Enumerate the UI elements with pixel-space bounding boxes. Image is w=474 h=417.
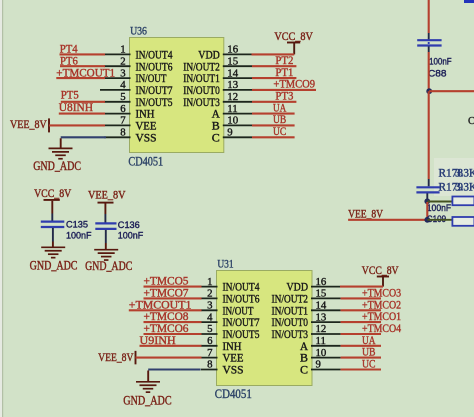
svg-text:15: 15 xyxy=(227,55,238,67)
net label +TMCO5 (U31 pin 1) xyxy=(144,276,189,288)
svg-text:6: 6 xyxy=(120,103,126,115)
U31 pin 2 (IN/OUT6) xyxy=(201,288,260,306)
U36 pin 9 (C) xyxy=(212,127,252,145)
svg-text:10: 10 xyxy=(227,115,238,127)
power port VCC_8V at U31 pin 16 xyxy=(362,264,399,287)
net label +TMCO9 (U36 pin 13) xyxy=(273,79,315,91)
svg-text:U31: U31 xyxy=(217,259,233,271)
wire from top edge to C88 xyxy=(428,0,430,40)
svg-text:IN/OUT1: IN/OUT1 xyxy=(272,305,309,317)
svg-text:11: 11 xyxy=(316,335,326,347)
U31 pin 1 (IN/OUT4) xyxy=(201,276,260,294)
net label +TMCO6 (U31 pin 5) xyxy=(144,323,189,335)
net label PT1 (U36 pin 14) xyxy=(275,67,293,79)
svg-text:100nF: 100nF xyxy=(66,230,92,241)
wire U36 pin 15 to PT2 xyxy=(252,65,296,67)
svg-text:C136: C136 xyxy=(118,219,140,230)
svg-text:C88: C88 xyxy=(428,67,447,78)
wire U31 pin 15 to +TMCO3 xyxy=(341,297,381,299)
ground net label GND_ADC (U36) xyxy=(33,159,81,173)
svg-text:14: 14 xyxy=(227,67,238,79)
svg-text:7: 7 xyxy=(120,115,126,127)
wire +TMCO5 to U31 pin 1 xyxy=(144,286,202,288)
U36 pin 15 (IN/OUT2) xyxy=(183,55,252,73)
wire U36 pin 11 to UA xyxy=(252,113,295,115)
wire U9INH to U31 pin 6 xyxy=(140,345,202,347)
U36 pin 5 (IN/OUT5) xyxy=(104,91,173,109)
svg-text:VEE_8V: VEE_8V xyxy=(348,207,383,220)
blue part fragment top right corner xyxy=(464,0,474,3)
wire between junction nodes xyxy=(426,202,428,220)
U36 pin 12 (IN/OUT3) xyxy=(183,91,252,109)
svg-text:VEE: VEE xyxy=(136,121,157,133)
svg-text:IN/OUT5: IN/OUT5 xyxy=(223,329,260,341)
net label PT5 xyxy=(61,90,79,102)
svg-text:A: A xyxy=(212,109,221,121)
wire +TMCO6 to U31 pin 5 xyxy=(144,333,202,335)
ground net label GND_ADC (U31) xyxy=(123,394,171,408)
net label +TMCOUT1 (U36) xyxy=(56,67,115,79)
U36 reference designator xyxy=(130,26,147,38)
U31 pin 10 (B) xyxy=(300,347,341,365)
C136 designator xyxy=(118,219,140,230)
wire U31 VSS (pin 8) to ground xyxy=(148,370,200,382)
power port VEE_8V above C136 xyxy=(88,189,126,203)
U36 pin 8 (VSS) xyxy=(104,127,157,145)
wire PT5 to U36 pin 5 xyxy=(61,101,105,103)
svg-text:PT5: PT5 xyxy=(61,90,79,102)
svg-text:IN/OUT0: IN/OUT0 xyxy=(183,85,220,97)
U36 pin 6 (INH) xyxy=(104,103,155,121)
svg-text:IN/OUT: IN/OUT xyxy=(136,73,167,85)
wire U8INH to U36 pin 6 xyxy=(59,113,105,115)
svg-text:B: B xyxy=(212,121,220,133)
svg-text:3: 3 xyxy=(120,67,125,79)
U31 pin 3 (IN/OUT) xyxy=(201,300,254,318)
wire U36 VSS (pin 8) to ground xyxy=(61,137,106,148)
svg-text:INH: INH xyxy=(136,109,155,121)
wire VEE_8V to C136 xyxy=(104,204,106,223)
net label PT6 xyxy=(60,55,78,67)
wire U31 pin 14 to +TMCO2 xyxy=(341,309,381,311)
svg-text:100nF: 100nF xyxy=(118,230,144,241)
C109 designator xyxy=(427,213,446,224)
svg-text:3.3K: 3.3K xyxy=(455,168,474,180)
net label +TMCO8 (U31 pin 4) xyxy=(144,311,189,323)
capacitor C88 xyxy=(417,40,441,45)
svg-text:5: 5 xyxy=(207,323,212,335)
svg-text:GND_ADC: GND_ADC xyxy=(123,394,171,408)
U31 part type CD4051 xyxy=(215,386,252,401)
svg-text:C: C xyxy=(468,116,474,127)
svg-text:UC: UC xyxy=(273,126,286,138)
net label +TMCOUT1 (U31 pin 3) xyxy=(129,299,192,311)
power net label VEE_8V (right) xyxy=(348,207,383,220)
wire U31 pin 16 to VCC_8V xyxy=(340,286,383,288)
U31 reference designator xyxy=(217,259,233,271)
C109 value 100nF xyxy=(427,202,452,213)
junction node below C88 xyxy=(426,88,432,94)
resistor R178 label with value 3.3K xyxy=(439,168,474,180)
U36 pin 10 (B) xyxy=(212,115,252,133)
wire +TMCOUT1 to U36 pin 3 xyxy=(56,77,105,79)
capacitor C109 xyxy=(416,187,439,192)
svg-text:VCC_8V: VCC_8V xyxy=(34,187,72,200)
net label UC (U36 pin 9) xyxy=(273,126,286,138)
net label +TMCO4 (U31 pin 12) xyxy=(362,323,401,335)
svg-text:U8INH: U8INH xyxy=(59,102,93,114)
power port VCC_8V above C135 xyxy=(34,187,72,200)
wire U36 pin 14 to PT1 xyxy=(252,77,296,79)
svg-text:12: 12 xyxy=(316,323,327,335)
U31 pin 9 (C) xyxy=(300,359,341,377)
svg-text:UB: UB xyxy=(273,114,287,126)
wire +TMCO7 to U31 pin 2 xyxy=(144,297,202,299)
ground GND_ADC under U31 xyxy=(136,382,160,392)
wire U36 pin 9 to UC xyxy=(252,136,295,138)
wire PT4 to U36 pin 1 xyxy=(60,53,106,55)
net label U9INH (U31 pin 6) xyxy=(140,335,176,347)
svg-text:3: 3 xyxy=(207,300,212,312)
pale area behind R178/R179 labels xyxy=(434,158,474,196)
ground net label GND_ADC (C136) xyxy=(85,259,132,273)
svg-text:PT3: PT3 xyxy=(275,91,293,103)
net label UB (U31 pin 10) xyxy=(362,347,376,359)
junction node at resistor R179 xyxy=(424,217,430,223)
svg-text:C: C xyxy=(300,365,308,377)
svg-text:15: 15 xyxy=(316,288,327,300)
C88 designator xyxy=(428,67,447,78)
svg-text:GND_ADC: GND_ADC xyxy=(85,259,132,273)
wire U36 pin 16 to VCC_8V xyxy=(252,53,295,55)
svg-text:C109: C109 xyxy=(427,213,446,224)
net label UB (U36 pin 10) xyxy=(273,114,287,126)
partial designator C of off-sheet part xyxy=(468,116,474,127)
svg-text:3.3K: 3.3K xyxy=(455,182,474,194)
svg-text:IN/OUT: IN/OUT xyxy=(223,305,254,317)
svg-text:11: 11 xyxy=(227,103,237,115)
wire VEE_8V to U36 pin 7 xyxy=(49,124,105,126)
net label UC (U31 pin 9) xyxy=(362,359,376,371)
U36 pin 16 (VDD) xyxy=(198,44,252,62)
U36 pin 13 (IN/OUT0) xyxy=(183,79,252,97)
svg-text:IN/OUT0: IN/OUT0 xyxy=(272,317,309,329)
resistor R178 body xyxy=(452,197,474,206)
U31 pin 12 (IN/OUT3) xyxy=(272,323,341,341)
svg-text:16: 16 xyxy=(316,276,327,288)
resistor R179 label with value 3.3K xyxy=(439,182,474,194)
U36 pin 14 (IN/OUT1) xyxy=(183,67,252,85)
svg-text:8: 8 xyxy=(120,127,125,139)
power port VCC_8V at U36 pin 16 xyxy=(274,30,313,54)
svg-text:1: 1 xyxy=(120,44,125,56)
svg-text:IN/OUT6: IN/OUT6 xyxy=(223,294,260,306)
power port VEE_8V at U36 pin 7 xyxy=(10,118,49,132)
wire U31 pin 11 to UA xyxy=(341,345,381,347)
svg-text:IN/OUT3: IN/OUT3 xyxy=(183,97,220,109)
wire junction down to capacitor C109 xyxy=(428,91,430,186)
svg-text:IN/OUT2: IN/OUT2 xyxy=(272,294,309,306)
svg-text:VDD: VDD xyxy=(287,282,309,294)
svg-text:100nF: 100nF xyxy=(427,202,452,213)
wire U31 pin 12 to +TMCO4 xyxy=(341,333,381,335)
U36 pin 11 (A) xyxy=(212,103,252,121)
svg-text:GND_ADC: GND_ADC xyxy=(30,259,78,273)
wire C109 to junction node xyxy=(426,193,428,199)
wire C88 to junction xyxy=(428,47,430,92)
svg-text:C: C xyxy=(212,132,220,144)
ground GND_ADC under U36 xyxy=(49,148,73,158)
wire U31 pin 10 to UB xyxy=(341,357,381,359)
wire junction to resistor R179 xyxy=(427,219,453,221)
net label U8INH xyxy=(59,102,93,114)
svg-text:VCC_8V: VCC_8V xyxy=(274,30,313,43)
svg-text:VEE_8V: VEE_8V xyxy=(88,189,126,202)
ground GND_ADC under C136 xyxy=(94,250,118,260)
wire +TMCOUT1 to U31 pin 3 xyxy=(129,309,202,311)
wire U31 pin 9 to UC xyxy=(341,368,381,370)
U36 pin 7 (VEE) xyxy=(104,115,157,133)
svg-text:VSS: VSS xyxy=(223,365,244,377)
svg-text:7: 7 xyxy=(207,347,213,359)
svg-text:1: 1 xyxy=(207,276,212,288)
U31 pin 5 (IN/OUT5) xyxy=(201,323,260,341)
svg-text:2: 2 xyxy=(120,55,125,67)
svg-text:IN/OUT2: IN/OUT2 xyxy=(183,61,220,73)
sheet border edge strip xyxy=(0,0,3,417)
power port VEE_8V at U31 pin 7 xyxy=(98,351,135,365)
svg-text:10: 10 xyxy=(316,347,327,359)
net label +TMCO2 (U31 pin 14) xyxy=(362,299,401,311)
U31 pin 15 (IN/OUT2) xyxy=(272,288,341,306)
svg-text:GND_ADC: GND_ADC xyxy=(33,159,81,173)
net label +TMCO1 (U31 pin 13) xyxy=(362,311,401,323)
svg-text:IN/OUT7: IN/OUT7 xyxy=(223,317,260,329)
svg-text:B: B xyxy=(300,353,308,365)
net label PT4 xyxy=(60,44,78,56)
net label +TMCO7 (U31 pin 2) xyxy=(144,287,189,299)
svg-text:5: 5 xyxy=(120,91,125,103)
svg-text:IN/OUT3: IN/OUT3 xyxy=(272,329,309,341)
wire junction to right edge xyxy=(429,90,474,92)
wire U36 pin 13 to +TMCO9 xyxy=(252,89,316,91)
ground net label GND_ADC (C135) xyxy=(30,259,78,273)
net label UA (U31 pin 11) xyxy=(362,335,376,347)
net label PT2 (U36 pin 15) xyxy=(275,55,293,67)
C136 value 100nF xyxy=(118,230,144,241)
svg-text:INH: INH xyxy=(223,341,242,353)
svg-text:VDD: VDD xyxy=(198,50,220,62)
svg-text:4: 4 xyxy=(207,311,213,323)
junction node at resistor R178 xyxy=(424,198,430,204)
svg-text:IN/OUT6: IN/OUT6 xyxy=(136,61,173,73)
svg-text:8: 8 xyxy=(207,359,212,371)
U31 pin 6 (INH) xyxy=(201,335,242,353)
wire C136 to ground xyxy=(105,230,107,250)
svg-text:+TMCO9: +TMCO9 xyxy=(273,79,315,91)
U31 pin 11 (A) xyxy=(300,335,341,353)
wire +TMCO8 to U31 pin 4 xyxy=(144,321,202,323)
U36 pin 2 (IN/OUT6) xyxy=(104,55,173,73)
U31 pin 8 (VSS) xyxy=(201,359,244,377)
U31 pin 4 (IN/OUT7) xyxy=(201,311,260,329)
U31 pin 16 (VDD) xyxy=(287,276,341,294)
svg-text:VSS: VSS xyxy=(136,132,157,144)
C135 value 100nF xyxy=(66,230,92,241)
svg-text:CD4051: CD4051 xyxy=(215,386,252,401)
wire C135 to ground xyxy=(52,228,54,247)
U31 pin 14 (IN/OUT1) xyxy=(272,300,341,318)
C135 designator xyxy=(66,219,88,230)
svg-text:12: 12 xyxy=(227,91,238,103)
svg-text:100nF: 100nF xyxy=(429,56,452,67)
svg-text:PT2: PT2 xyxy=(275,55,293,67)
net label UA (U36 pin 11) xyxy=(273,102,287,114)
svg-text:16: 16 xyxy=(227,44,238,56)
U36 part type CD4051 xyxy=(128,154,163,169)
wire junction to resistor R178 xyxy=(427,201,453,203)
svg-text:UA: UA xyxy=(273,102,287,114)
net label PT3 (U36 pin 12) xyxy=(275,91,293,103)
svg-text:13: 13 xyxy=(316,311,327,323)
U31 pin 7 (VEE) xyxy=(201,347,244,365)
svg-text:VCC_8V: VCC_8V xyxy=(362,264,399,277)
svg-text:IN/OUT5: IN/OUT5 xyxy=(136,97,173,109)
svg-text:VEE_8V: VEE_8V xyxy=(98,351,134,364)
svg-text:13: 13 xyxy=(227,79,238,91)
capacitor C135 xyxy=(41,222,65,227)
wire U36 pin 12 to PT3 xyxy=(252,101,296,103)
svg-text:9: 9 xyxy=(227,127,232,139)
wire U36 pin 10 to UB xyxy=(252,124,295,126)
svg-text:IN/OUT7: IN/OUT7 xyxy=(136,85,173,97)
svg-text:A: A xyxy=(300,341,309,353)
wire VEE_8V to junction xyxy=(348,219,427,221)
svg-text:PT1: PT1 xyxy=(275,67,293,79)
svg-text:CD4051: CD4051 xyxy=(128,154,163,169)
svg-text:4: 4 xyxy=(120,79,126,91)
wire VEE_8V to U31 pin 7 xyxy=(136,357,202,359)
svg-text:14: 14 xyxy=(316,300,327,312)
U31 pin 13 (IN/OUT0) xyxy=(272,311,341,329)
wire VCC_8V to C135 xyxy=(51,201,53,221)
svg-text:IN/OUT1: IN/OUT1 xyxy=(183,73,220,85)
wire U31 pin 13 to +TMCO1 xyxy=(341,321,381,323)
IC U36 body (CD4051 analog multiplexer) xyxy=(130,38,224,153)
svg-text:C135: C135 xyxy=(66,219,88,230)
svg-text:9: 9 xyxy=(316,359,321,371)
capacitor C136 xyxy=(95,223,116,229)
U36 pin 3 (IN/OUT) xyxy=(104,67,167,85)
U36 pin 4 (IN/OUT7) xyxy=(100,79,173,97)
wire PT6 to U36 pin 2 xyxy=(60,65,105,67)
ground GND_ADC under C135 xyxy=(41,247,65,257)
U36 pin 1 (IN/OUT4) xyxy=(104,44,173,62)
svg-text:VEE_8V: VEE_8V xyxy=(10,118,47,131)
svg-text:VEE: VEE xyxy=(223,353,244,365)
svg-text:IN/OUT4: IN/OUT4 xyxy=(223,282,260,294)
net label +TMCO3 (U31 pin 15) xyxy=(362,287,401,299)
IC U31 body (CD4051 analog mux IC) xyxy=(217,271,313,386)
svg-text:6: 6 xyxy=(207,335,213,347)
svg-text:U36: U36 xyxy=(130,26,147,38)
svg-text:IN/OUT4: IN/OUT4 xyxy=(136,50,173,62)
resistor R179 body xyxy=(452,217,474,226)
C88 value 100nF xyxy=(429,56,452,67)
svg-text:2: 2 xyxy=(207,288,212,300)
